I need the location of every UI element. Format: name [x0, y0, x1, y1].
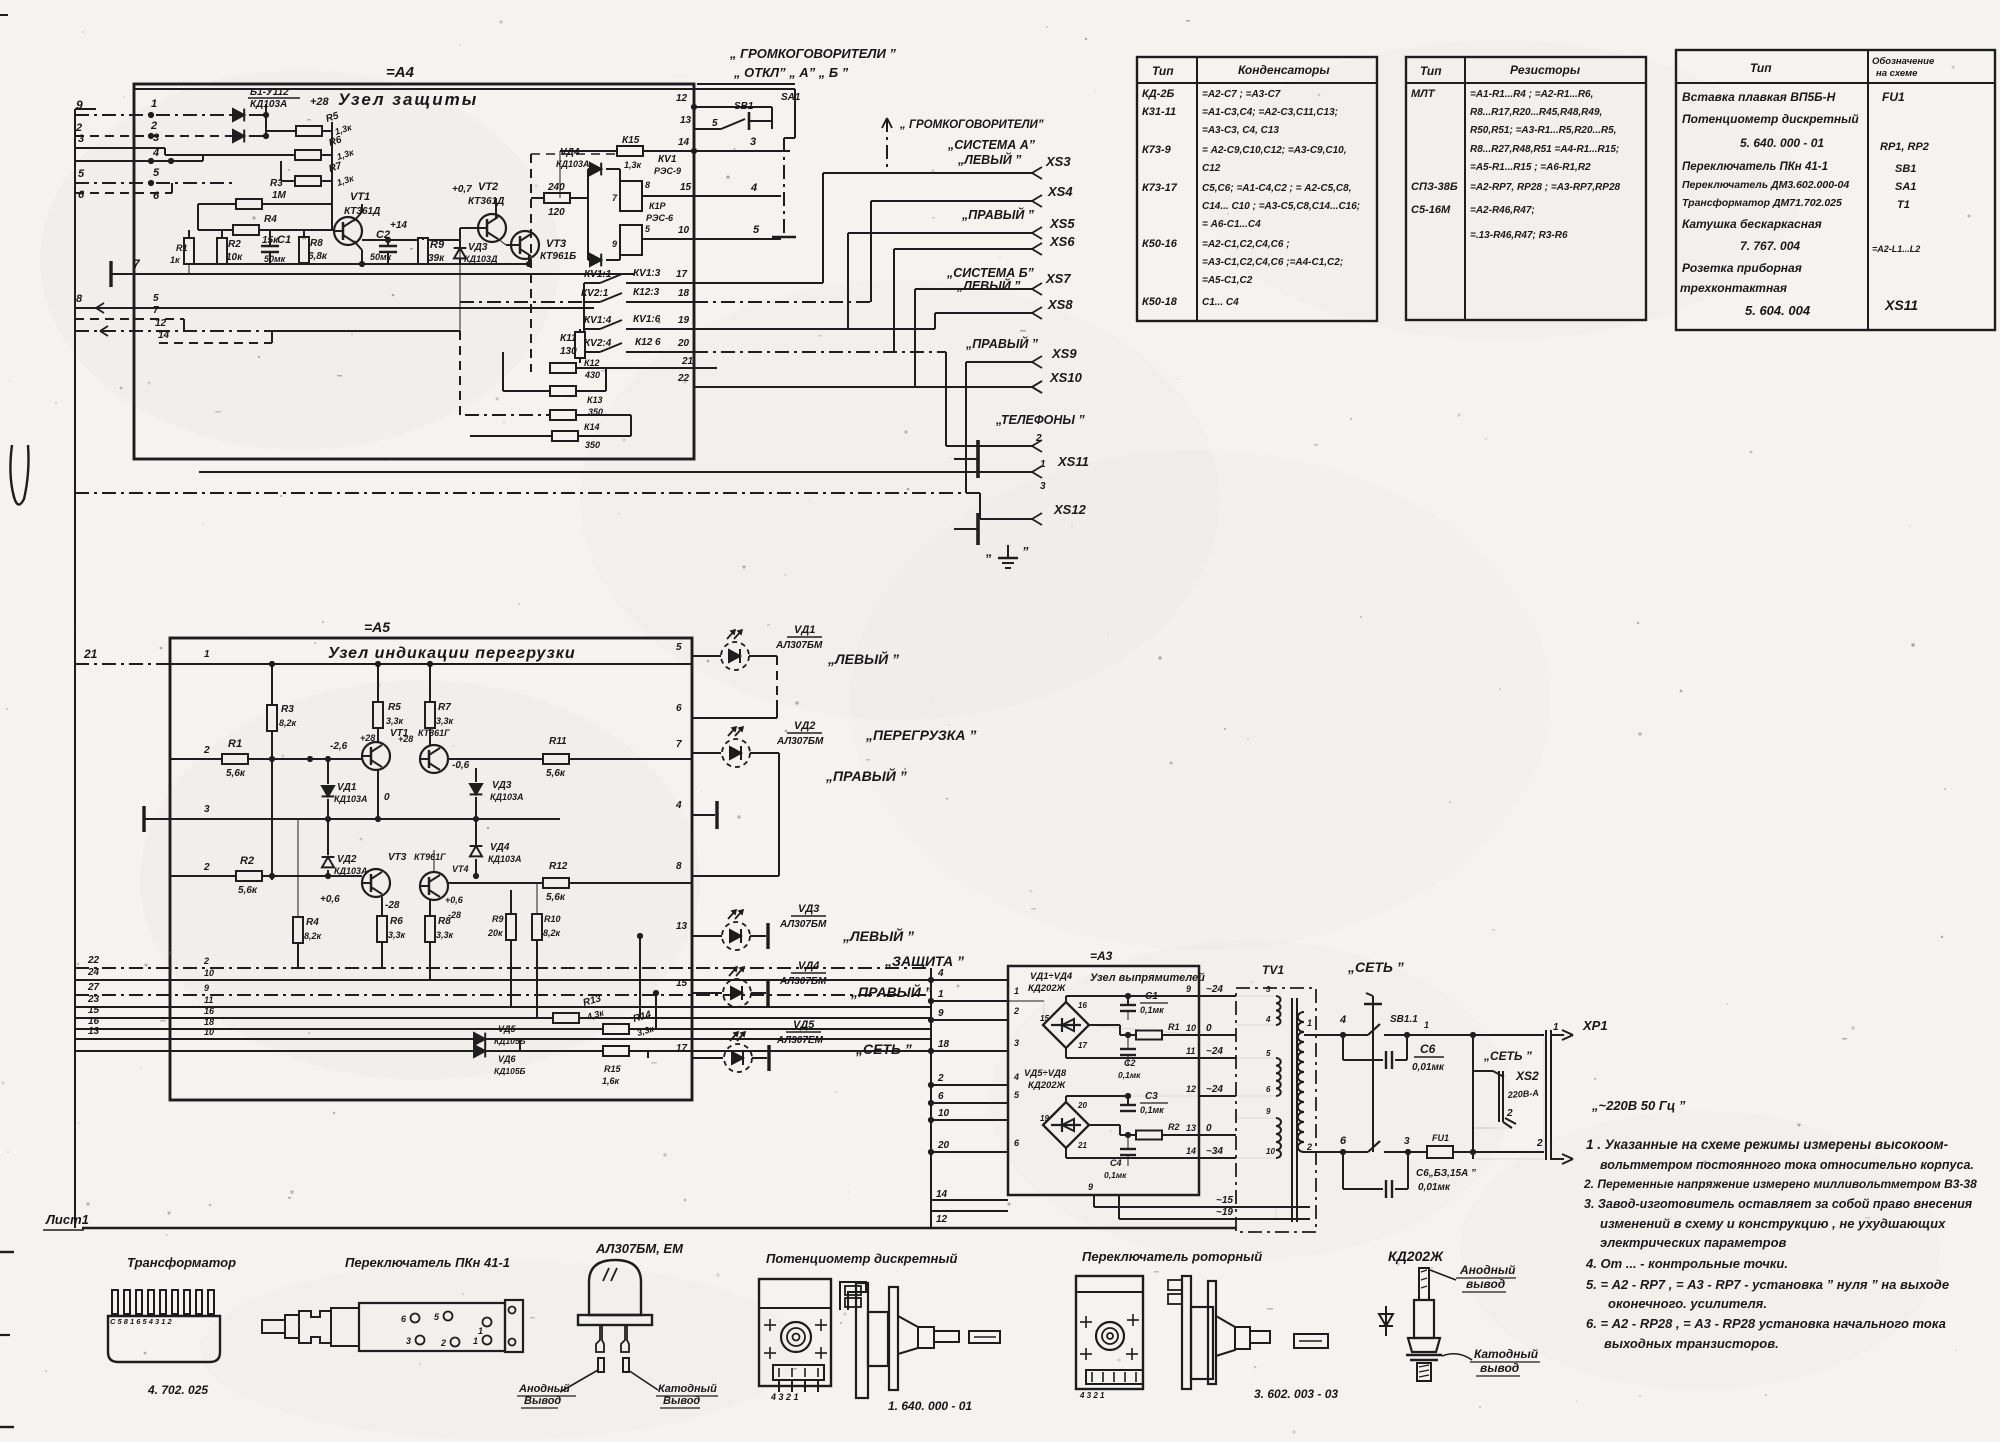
svg-text:3. 602. 003 - 03: 3. 602. 003 - 03: [1254, 1387, 1338, 1401]
svg-text:ХS6: ХS6: [1049, 234, 1075, 249]
svg-text:27: 27: [87, 982, 100, 993]
svg-text:2: 2: [937, 1073, 944, 1084]
svg-text:РЭС-6: РЭС-6: [646, 213, 674, 223]
svg-text:1,3к: 1,3к: [624, 160, 642, 170]
svg-text:1,6к: 1,6к: [602, 1076, 620, 1086]
svg-text:9: 9: [938, 1008, 944, 1019]
svg-text:Т1: Т1: [1897, 199, 1910, 211]
svg-text:=А5: =А5: [364, 619, 390, 635]
svg-text:1: 1: [1553, 1022, 1559, 1033]
svg-text:8: 8: [645, 180, 650, 190]
svg-text:КД-2Б: КД-2Б: [1142, 88, 1174, 100]
svg-text:23: 23: [87, 994, 100, 1005]
svg-text:К12:3: К12:3: [633, 287, 660, 298]
svg-text:К12 6: К12 6: [635, 337, 661, 348]
svg-text:14: 14: [936, 1189, 948, 1200]
svg-text:КV2:1: КV2:1: [581, 288, 609, 299]
svg-text:=А3: =А3: [1090, 949, 1113, 963]
svg-text:„ ОТКЛ” „ А” „ Б ”: „ ОТКЛ” „ А” „ Б ”: [733, 65, 849, 80]
svg-text:КV1:1: КV1:1: [584, 269, 612, 280]
svg-text:12: 12: [676, 93, 688, 104]
svg-text:VД2: VД2: [794, 720, 815, 732]
svg-text:RР1, RР2: RР1, RР2: [1880, 141, 1929, 153]
svg-text:=А5-С1,С2: =А5-С1,С2: [1202, 275, 1253, 286]
svg-text:5. 604. 004: 5. 604. 004: [1745, 303, 1811, 318]
svg-text:„ ГРОМКОГОВОРИТЕЛИ ”: „ ГРОМКОГОВОРИТЕЛИ ”: [729, 46, 896, 61]
svg-text:FU1: FU1: [1882, 90, 1905, 104]
svg-text:SВ1: SВ1: [734, 101, 754, 112]
svg-text:1. 640. 000 - 01: 1. 640. 000 - 01: [888, 1399, 972, 1413]
svg-text:„~220В 50 Гц ”: „~220В 50 Гц ”: [1591, 1098, 1686, 1113]
svg-text:15: 15: [680, 182, 692, 193]
svg-text:КД202Ж: КД202Ж: [1388, 1248, 1444, 1264]
svg-text:„ЛЕВЫЙ ”: „ЛЕВЫЙ ”: [842, 927, 914, 944]
svg-text:КV1:4: КV1:4: [584, 315, 612, 326]
svg-text:9: 9: [612, 239, 617, 249]
svg-text:К1Р: К1Р: [649, 201, 667, 211]
svg-text:КД103А: КД103А: [556, 159, 590, 169]
svg-text:Обозначение: Обозначение: [1872, 56, 1935, 67]
svg-text:Катодный: Катодный: [1474, 1347, 1539, 1361]
svg-text:=А2-L1...L2: =А2-L1...L2: [1872, 244, 1920, 254]
svg-text:С1... С4: С1... С4: [1202, 297, 1239, 308]
svg-text:К73-17: К73-17: [1142, 182, 1178, 194]
svg-text:РЭС-9: РЭС-9: [654, 166, 681, 176]
svg-text:ХS3: ХS3: [1045, 154, 1071, 169]
svg-text:С 5 8 1 6 5 4 3 1 2: С 5 8 1 6 5 4 3 1 2: [110, 1317, 173, 1326]
svg-text:1: 1: [1014, 986, 1019, 996]
svg-text:VД5: VД5: [793, 1019, 815, 1031]
svg-text:Узел индикации перегрузки: Узел индикации перегрузки: [328, 645, 576, 662]
svg-text:К15: К15: [622, 135, 640, 146]
svg-text:Тип: Тип: [1152, 64, 1174, 78]
svg-text:6: 6: [938, 1091, 944, 1102]
svg-text:VД1÷VД4: VД1÷VД4: [1030, 971, 1073, 982]
svg-text:22: 22: [87, 955, 100, 966]
svg-text:К11: К11: [560, 333, 577, 344]
svg-text:АЛ307БМ: АЛ307БМ: [779, 919, 827, 930]
svg-text:19: 19: [678, 315, 690, 326]
svg-text:VД4: VД4: [560, 147, 580, 158]
svg-text:3: 3: [750, 136, 756, 148]
svg-text:24: 24: [87, 967, 100, 978]
svg-text:21: 21: [83, 647, 98, 661]
svg-text:„ ГРОМКОГОВОРИТЕЛИ”: „ ГРОМКОГОВОРИТЕЛИ”: [899, 119, 1044, 131]
svg-text:К50-16: К50-16: [1142, 238, 1178, 250]
svg-text:17: 17: [676, 1043, 688, 1054]
svg-text:9: 9: [76, 98, 83, 112]
svg-text:18: 18: [678, 288, 690, 299]
svg-text:„ПРАВЫЙ ”: „ПРАВЫЙ ”: [850, 983, 932, 1000]
svg-text:VД3: VД3: [798, 903, 819, 915]
svg-text:Тип: Тип: [1750, 61, 1772, 75]
svg-text:10: 10: [204, 1027, 214, 1037]
svg-text:КV1:3: КV1:3: [633, 268, 661, 279]
svg-text:ХS2: ХS2: [1515, 1069, 1539, 1083]
svg-text:„СИСТЕМА А”: „СИСТЕМА А”: [947, 138, 1036, 152]
svg-text:SА1: SА1: [1895, 181, 1916, 193]
svg-text:КV1:6: КV1:6: [633, 314, 661, 325]
svg-text:„СЕТЬ ”: „СЕТЬ ”: [855, 1041, 912, 1057]
svg-text:1: 1: [204, 649, 210, 660]
svg-text:АЛ307ЕМ: АЛ307ЕМ: [776, 1035, 824, 1046]
svg-text:4 3 2 1: 4 3 2 1: [770, 1392, 799, 1402]
svg-text:К73-9: К73-9: [1142, 144, 1172, 156]
svg-text:10: 10: [678, 225, 690, 236]
svg-text:VД4: VД4: [798, 960, 819, 972]
svg-text:АЛ307БМ, ЕМ: АЛ307БМ, ЕМ: [595, 1241, 684, 1256]
svg-text:13: 13: [88, 1026, 100, 1037]
svg-text:1: 1: [938, 989, 944, 1000]
svg-text:4 3 2 1: 4 3 2 1: [1079, 1391, 1105, 1400]
svg-text:130: 130: [560, 346, 577, 357]
svg-text:18: 18: [938, 1039, 950, 1050]
svg-text:13: 13: [680, 115, 692, 126]
svg-text:240: 240: [547, 182, 565, 193]
svg-text:КV2:4: КV2:4: [584, 338, 612, 349]
svg-text:15: 15: [88, 1005, 100, 1016]
svg-text:2: 2: [1013, 1006, 1019, 1016]
svg-text:К50-18: К50-18: [1142, 296, 1178, 308]
svg-text:14: 14: [678, 137, 690, 148]
svg-text:7: 7: [676, 739, 682, 750]
svg-text:„СИСТЕМА Б”: „СИСТЕМА Б”: [946, 266, 1035, 280]
svg-text:„ПРАВЫЙ ”: „ПРАВЫЙ ”: [961, 206, 1035, 222]
svg-text:вывод: вывод: [1480, 1361, 1519, 1375]
svg-text:4. 702. 025: 4. 702. 025: [147, 1383, 208, 1397]
svg-text:„ЛЕВЫЙ ”: „ЛЕВЫЙ ”: [957, 151, 1022, 167]
svg-text:18: 18: [204, 1017, 214, 1027]
svg-text:20: 20: [937, 1140, 950, 1151]
svg-text:Лист1: Лист1: [45, 1212, 89, 1227]
svg-text:Трансформатор: Трансформатор: [127, 1255, 236, 1270]
svg-text:ХР1: ХР1: [1582, 1018, 1608, 1033]
svg-text:=А4: =А4: [386, 64, 415, 81]
svg-text:ХS11: ХS11: [1884, 297, 1918, 313]
svg-text:ХS5: ХS5: [1049, 216, 1075, 231]
svg-text:5: 5: [753, 224, 760, 236]
svg-text:15: 15: [676, 978, 688, 989]
svg-text:на схеме: на схеме: [1876, 68, 1918, 79]
svg-text:Потенциометр дискретный: Потенциометр дискретный: [766, 1251, 957, 1266]
svg-text:КV1: КV1: [658, 154, 677, 165]
svg-text:К13: К13: [587, 395, 603, 405]
svg-text:430: 430: [584, 370, 600, 380]
svg-text:10: 10: [938, 1108, 950, 1119]
svg-text:4: 4: [937, 968, 944, 979]
svg-text:ХS7: ХS7: [1045, 271, 1071, 286]
svg-text:12: 12: [936, 1214, 948, 1225]
svg-text:К31-11: К31-11: [1142, 106, 1176, 118]
svg-text:„ЗАЩИТА ”: „ЗАЩИТА ”: [884, 953, 964, 969]
svg-text:6: 6: [676, 703, 682, 714]
svg-text:АЛ307БМ: АЛ307БМ: [776, 736, 824, 747]
svg-text:4: 4: [750, 182, 757, 194]
svg-text:АЛ307БМ: АЛ307БМ: [779, 976, 827, 987]
svg-text:17: 17: [676, 269, 688, 280]
svg-text:SВ1: SВ1: [1895, 163, 1916, 175]
svg-text:К12: К12: [584, 358, 600, 368]
svg-text:R15: R15: [604, 1064, 622, 1074]
svg-text:3: 3: [78, 133, 84, 145]
svg-text:SА1: SА1: [781, 92, 801, 103]
svg-text:5: 5: [712, 118, 718, 129]
svg-text:ХS4: ХS4: [1047, 184, 1073, 199]
